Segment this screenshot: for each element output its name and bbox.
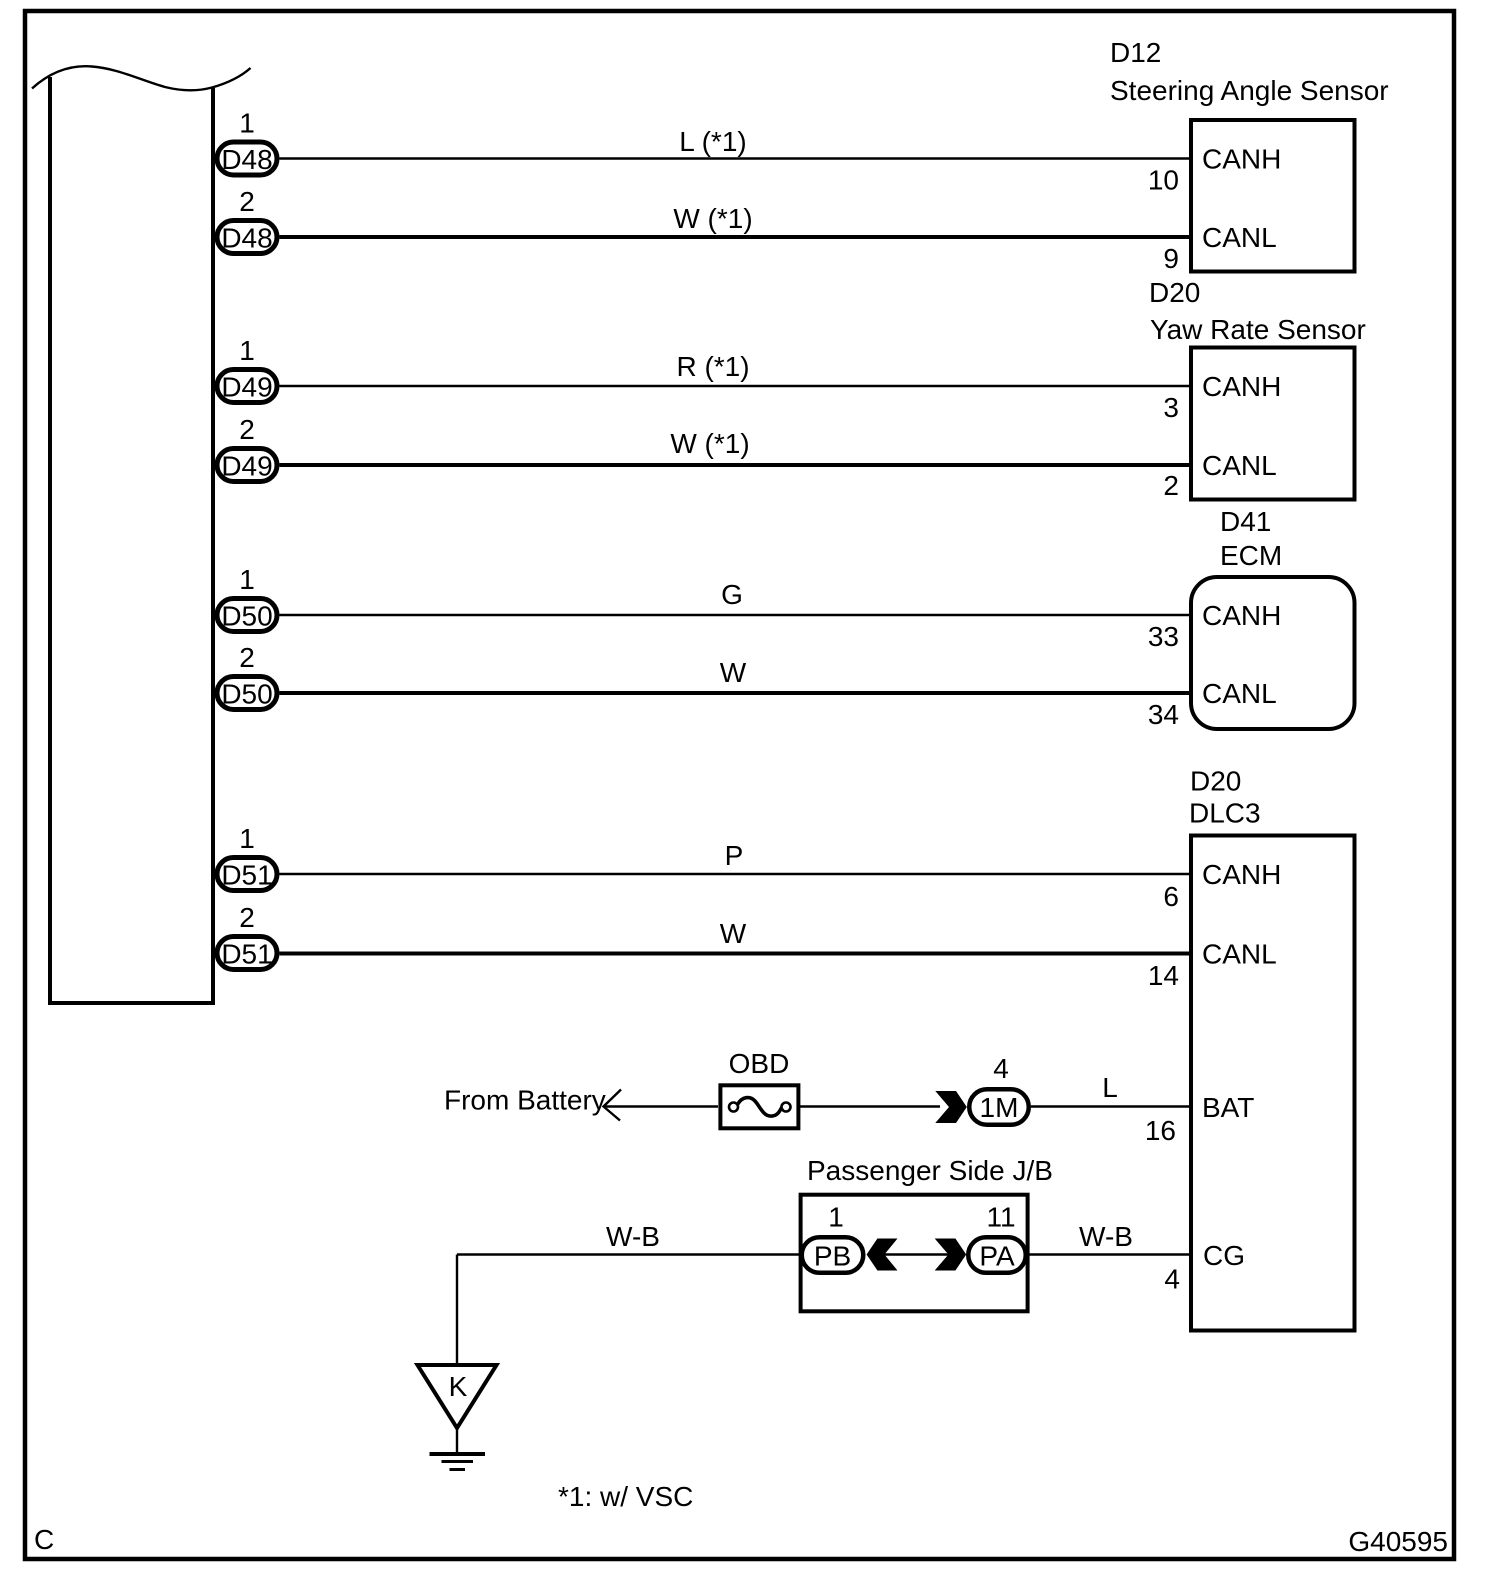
svg-text:2: 2 (239, 414, 255, 445)
label D20 Yaw Rate Sensor (1149, 277, 1366, 345)
svg-text:D20: D20 (1149, 277, 1200, 308)
svg-text:1: 1 (239, 108, 255, 139)
connector D49 pin 2 (217, 449, 277, 482)
svg-text:1: 1 (239, 335, 255, 366)
svg-text:PB: PB (814, 1241, 851, 1272)
pin 33 CANH of ECM (1148, 600, 1282, 652)
yaw rate sensor box U-D20 (1191, 348, 1355, 500)
svg-text:P: P (725, 840, 744, 871)
svg-text:*1: w/ VSC: *1: w/ VSC (558, 1481, 693, 1512)
svg-text:1: 1 (828, 1202, 844, 1233)
connector PA (968, 1237, 1026, 1273)
svg-text:W-B: W-B (1079, 1221, 1133, 1252)
wire CANH ECM, colour G (280, 579, 1191, 615)
wire battery to fuse (604, 1105, 719, 1107)
svg-text:14: 14 (1148, 960, 1179, 991)
svg-text:W: W (720, 918, 747, 949)
svg-text:D48: D48 (221, 223, 272, 254)
connector D50 pin 2 (217, 677, 277, 710)
svg-text:From Battery: From Battery (444, 1085, 606, 1116)
svg-text:D20: D20 (1190, 766, 1241, 797)
svg-text:K: K (449, 1371, 468, 1402)
svg-text:D51: D51 (221, 860, 272, 891)
connector 1M (969, 1089, 1029, 1125)
svg-text:D48: D48 (221, 144, 272, 175)
svg-text:2: 2 (239, 642, 255, 673)
label D12 Steering Angle Sensor (1110, 37, 1389, 106)
svg-text:ECM: ECM (1220, 540, 1282, 571)
svg-text:34: 34 (1148, 699, 1179, 730)
svg-text:Steering Angle Sensor: Steering Angle Sensor (1110, 75, 1389, 106)
svg-text:2: 2 (1163, 470, 1179, 501)
svg-text:C: C (34, 1524, 54, 1555)
wire CANL yaw rate, colour W (*1) (280, 428, 1191, 465)
wire CANH steering, colour L (*1) (280, 126, 1191, 159)
svg-text:4: 4 (993, 1053, 1009, 1084)
pin 16 BAT of DLC3 (1145, 1092, 1255, 1146)
junction chevron into PA (935, 1239, 967, 1271)
connector D51 pin 2 (217, 937, 277, 970)
svg-text:W (*1): W (*1) (673, 203, 752, 234)
wire PA to CG, colour W-B (1028, 1221, 1191, 1255)
svg-text:1: 1 (239, 823, 255, 854)
svg-text:Yaw Rate Sensor: Yaw Rate Sensor (1150, 314, 1366, 345)
label D41 ECM (1220, 506, 1282, 571)
svg-text:2: 2 (239, 902, 255, 933)
fuse OBD (720, 1048, 798, 1128)
pin 6 CANH of DLC3 (1163, 859, 1281, 912)
pin 34 CANL of ECM (1148, 678, 1277, 730)
connector D48 pin 2 (217, 221, 277, 254)
svg-text:L (*1): L (*1) (679, 126, 746, 157)
svg-text:W: W (720, 657, 747, 688)
ground point K triangle (418, 1365, 497, 1428)
wire CANH yaw rate, colour R (*1) (280, 351, 1191, 386)
arrowhead from battery (604, 1090, 622, 1121)
passenger side J/B box (801, 1195, 1028, 1312)
svg-text:1M: 1M (980, 1092, 1019, 1123)
svg-text:CANL: CANL (1202, 222, 1277, 253)
svg-text:CANH: CANH (1202, 600, 1281, 631)
ECM box U-D41 (1191, 577, 1355, 729)
wire down to ground K (456, 1255, 458, 1366)
svg-text:CANL: CANL (1202, 450, 1277, 481)
svg-text:CG: CG (1203, 1240, 1245, 1271)
svg-text:10: 10 (1148, 165, 1179, 196)
svg-text:Passenger Side J/B: Passenger Side J/B (807, 1155, 1053, 1186)
pin 2 CANL of yaw rate sensor (1163, 450, 1276, 501)
svg-text:D49: D49 (221, 451, 272, 482)
svg-text:BAT: BAT (1202, 1092, 1254, 1123)
wire fuse to 1M (800, 1105, 940, 1107)
svg-text:3: 3 (1163, 392, 1179, 423)
wire CANL DLC3, colour W (280, 918, 1192, 954)
svg-text:4: 4 (1164, 1264, 1180, 1295)
wire ground to PB, colour W-B (457, 1221, 800, 1255)
svg-text:CANL: CANL (1202, 678, 1277, 709)
connector D49 pin 1 (217, 370, 277, 403)
svg-text:CANL: CANL (1202, 939, 1277, 970)
svg-text:D50: D50 (221, 679, 272, 710)
svg-text:DLC3: DLC3 (1189, 798, 1261, 829)
svg-text:2: 2 (239, 186, 255, 217)
svg-text:D49: D49 (221, 372, 272, 403)
ECU block (left, torn top) (48, 77, 215, 1003)
svg-text:9: 9 (1163, 243, 1179, 274)
svg-text:CANH: CANH (1202, 371, 1281, 402)
svg-text:11: 11 (986, 1202, 1015, 1233)
ground symbol (430, 1428, 486, 1470)
svg-text:33: 33 (1148, 621, 1179, 652)
svg-text:PA: PA (979, 1241, 1015, 1272)
svg-text:L: L (1102, 1072, 1118, 1103)
svg-text:1: 1 (239, 564, 255, 595)
connector D51 pin 1 (217, 858, 277, 891)
DLC3 box U-D20 (1191, 836, 1355, 1331)
connector D50 pin 1 (217, 599, 277, 632)
svg-text:G: G (721, 579, 743, 610)
svg-text:D51: D51 (221, 939, 272, 970)
svg-text:CANH: CANH (1202, 859, 1281, 890)
connector D48 pin 1 (217, 142, 277, 175)
svg-text:OBD: OBD (729, 1048, 790, 1079)
svg-text:W-B: W-B (606, 1221, 660, 1252)
wire between chevrons inside J/B (884, 1253, 950, 1255)
junction chevron out of PB (867, 1239, 898, 1271)
svg-text:D12: D12 (1110, 37, 1161, 68)
wire CANL steering, colour W (*1) (280, 203, 1191, 237)
svg-text:G40595: G40595 (1348, 1526, 1448, 1557)
svg-text:D41: D41 (1220, 506, 1271, 537)
torn-edge wavy line (32, 66, 251, 90)
connector PB (802, 1237, 864, 1273)
svg-text:16: 16 (1145, 1115, 1176, 1146)
svg-text:CANH: CANH (1202, 144, 1281, 175)
wire CANH DLC3, colour P (280, 840, 1192, 874)
wire 1M to BAT, colour L (1031, 1072, 1191, 1107)
svg-text:6: 6 (1163, 881, 1179, 912)
pin 14 CANL of DLC3 (1148, 939, 1277, 992)
svg-text:D50: D50 (221, 601, 272, 632)
pin 4 CG of DLC3 (1164, 1240, 1245, 1295)
pin 10 CANH of D12 (1148, 144, 1282, 196)
wire CANL ECM, colour W (280, 657, 1191, 693)
svg-text:R (*1): R (*1) (676, 351, 749, 382)
junction chevron into 1M (935, 1091, 967, 1123)
steering angle sensor box U-D12 (1191, 120, 1355, 272)
pin 3 CANH of yaw rate sensor (1163, 371, 1281, 423)
svg-text:W (*1): W (*1) (670, 428, 749, 459)
pin 9 CANL of D12 (1163, 222, 1276, 274)
label D20 DLC3 (1189, 766, 1261, 829)
